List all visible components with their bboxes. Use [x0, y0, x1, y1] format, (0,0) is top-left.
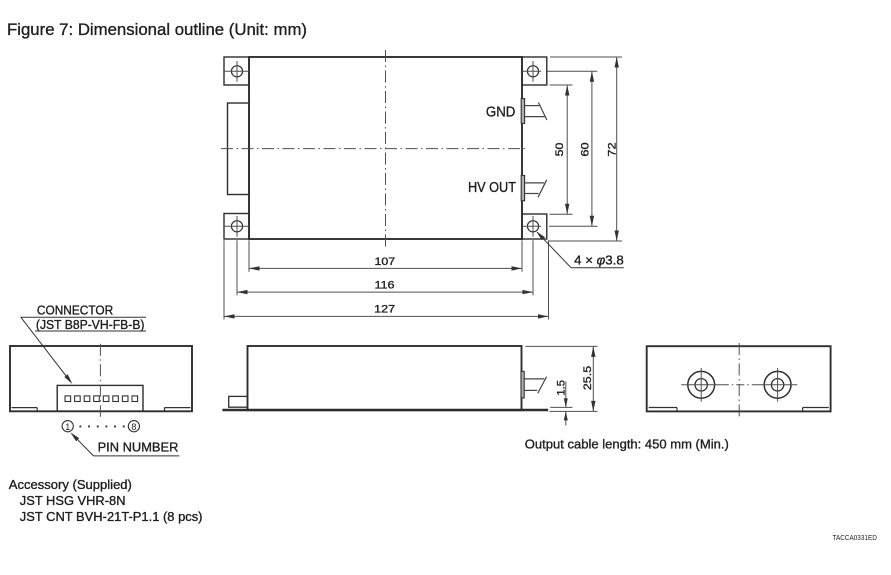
mounting tab bottom-left	[224, 214, 249, 240]
svg-text:107: 107	[375, 256, 396, 268]
dimension 107	[249, 267, 522, 269]
end view body	[647, 346, 831, 411]
svg-text:Accessory (Supplied): Accessory (Supplied)	[9, 477, 132, 492]
hole top-right	[527, 66, 538, 77]
front view left foot notch	[12, 407, 38, 409]
mounting tab top-right	[522, 57, 547, 85]
side view output terminal pad	[521, 371, 524, 398]
svg-text:1: 1	[65, 422, 70, 432]
svg-text:8: 8	[131, 422, 136, 432]
svg-text:Output cable length: 450 mm (M: Output cable length: 450 mm (Min.)	[525, 437, 729, 452]
side view output terminal tab	[524, 378, 544, 380]
left connector protrusion	[228, 103, 250, 195]
svg-text:CONNECTOR: CONNECTOR	[37, 303, 113, 318]
dimension 127	[224, 315, 549, 317]
PIN NUMBER label with leader	[94, 455, 180, 457]
dimension 116	[237, 291, 533, 293]
mounting tab top-left	[224, 57, 249, 85]
dimension 50	[566, 85, 568, 214]
HV OUT terminal tab	[525, 182, 545, 184]
extension lines right of top view	[550, 84, 573, 86]
dimension 25.5	[525, 345, 597, 347]
pin number 8 circle	[128, 421, 139, 432]
pin dots	[79, 426, 81, 428]
svg-text:Figure 7: Dimensional outline: Figure 7: Dimensional outline (Unit: mm)	[7, 20, 307, 39]
end view right foot notch	[803, 407, 829, 409]
connector pins	[65, 396, 71, 402]
dimension 60	[591, 71, 593, 226]
connector leader arrow	[21, 317, 68, 378]
HV OUT terminal end-on	[764, 371, 791, 398]
svg-text:50: 50	[554, 143, 566, 157]
svg-text:GND: GND	[486, 104, 516, 121]
mounting tab bottom-right	[522, 214, 547, 239]
svg-text:(JST B8P-VH-FB-B): (JST B8P-VH-FB-B)	[36, 317, 145, 332]
side view body	[248, 346, 522, 410]
svg-text:4 × φ3.8: 4 × φ3.8	[574, 252, 624, 267]
svg-text:127: 127	[374, 304, 395, 316]
hole bottom-left	[231, 221, 242, 232]
svg-text:116: 116	[375, 279, 395, 291]
svg-text:72: 72	[606, 142, 618, 156]
side view connector protrusion	[229, 396, 248, 407]
svg-text:PIN NUMBER: PIN NUMBER	[98, 440, 179, 455]
svg-text:60: 60	[579, 142, 591, 156]
GND terminal end-on	[688, 371, 715, 398]
end view horizontal centerline	[721, 384, 758, 386]
GND terminal tab	[525, 105, 540, 107]
svg-text:1.5: 1.5	[556, 380, 568, 396]
8P connector	[57, 385, 143, 411]
end view left foot notch	[649, 407, 677, 409]
front view right foot notch	[165, 407, 191, 409]
svg-text:JST HSG VHR-8N: JST HSG VHR-8N	[20, 493, 126, 508]
front view body	[10, 346, 192, 411]
GND terminal pad	[521, 99, 524, 124]
side view flange	[222, 409, 548, 411]
HV OUT terminal pad	[521, 176, 524, 201]
hole top-left	[231, 66, 242, 77]
extension lines below top view	[223, 240, 225, 319]
svg-text:JST CNT BVH-21T-P1.1 (8 pcs): JST CNT BVH-21T-P1.1 (8 pcs)	[20, 509, 203, 524]
svg-text:25.5: 25.5	[582, 366, 594, 390]
horizontal centerline top view	[221, 148, 525, 150]
pin number 1 circle	[62, 421, 73, 432]
end view vertical centerline	[738, 343, 740, 416]
top view body	[249, 57, 522, 239]
vertical centerline top view	[385, 50, 387, 247]
dimension 1.5	[550, 406, 572, 408]
front view centerline	[99, 344, 101, 417]
dimension 72	[616, 57, 618, 241]
hole bottom-right	[527, 221, 538, 232]
label 4 x phi3.8 with leader	[571, 267, 624, 269]
svg-text:TACCA0331ED: TACCA0331ED	[833, 533, 878, 542]
svg-text:HV OUT: HV OUT	[468, 179, 516, 196]
